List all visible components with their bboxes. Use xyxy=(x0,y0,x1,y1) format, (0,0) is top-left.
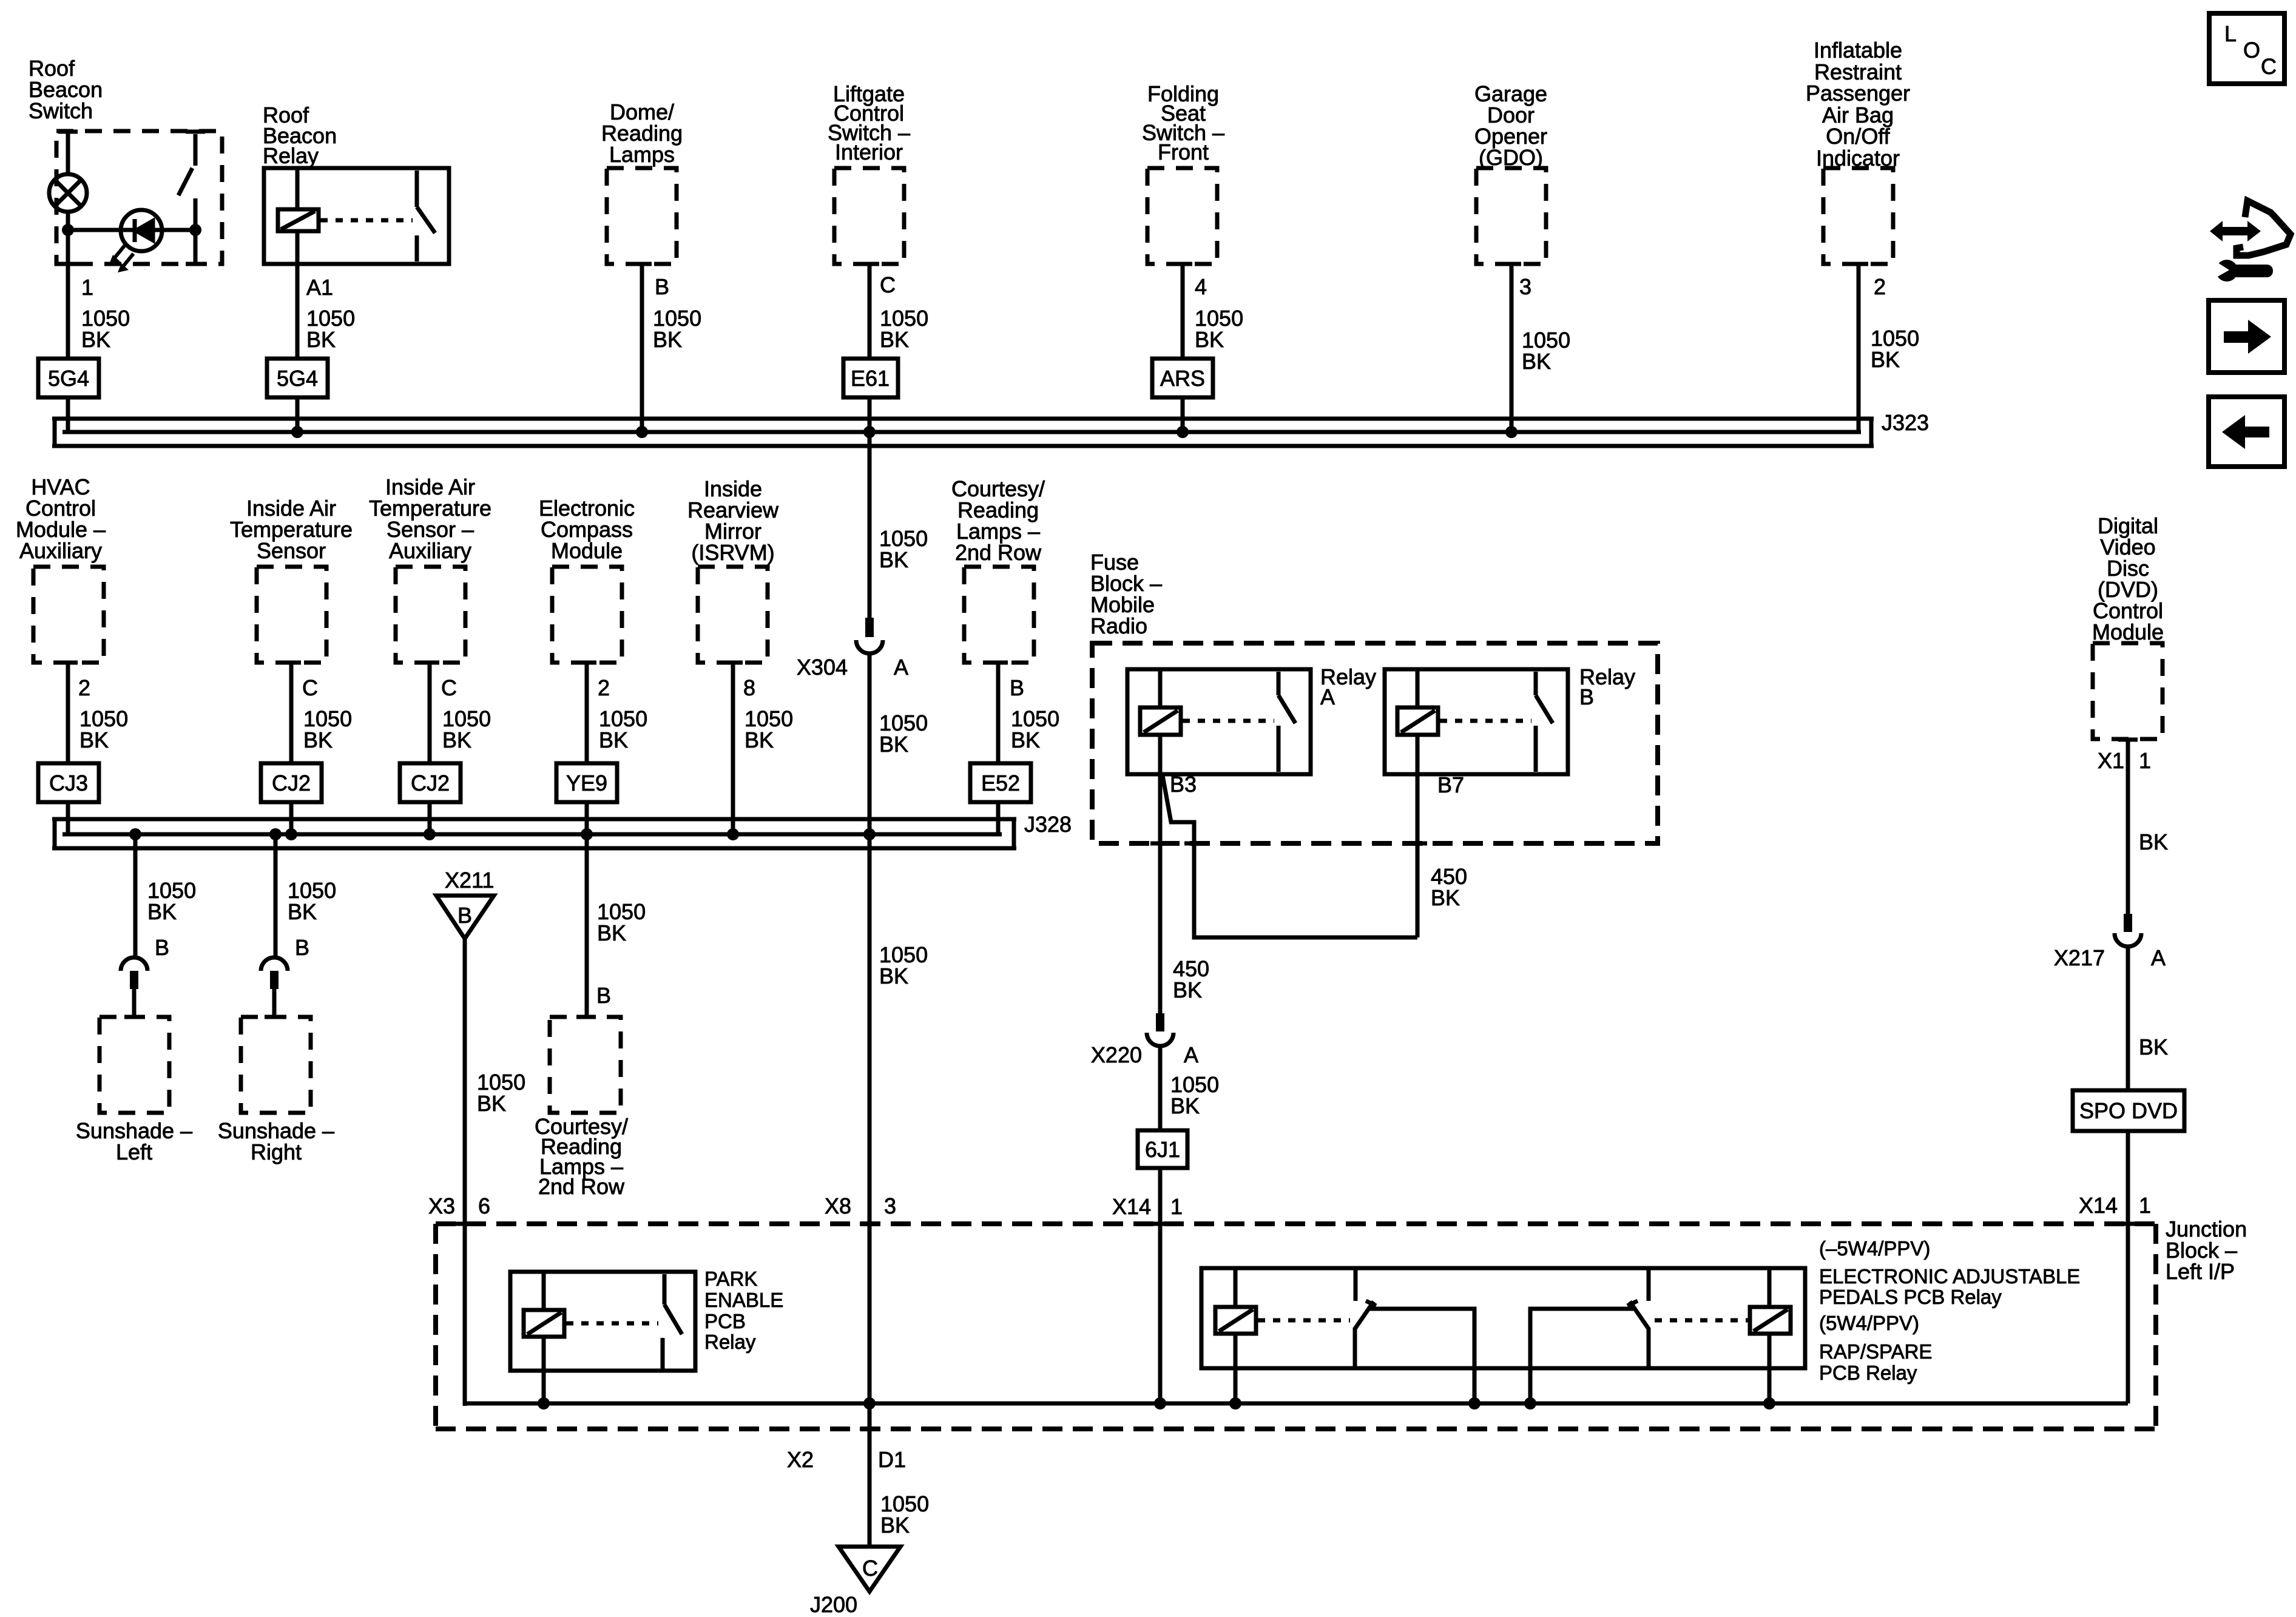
RAP relay switch lower contact to box bottom xyxy=(1647,1328,1651,1368)
connector (sunshade left) pin xyxy=(130,971,138,989)
svg-text:BK: BK xyxy=(1173,977,1202,1002)
svg-text:PEDALS PCB Relay: PEDALS PCB Relay xyxy=(1819,1286,2002,1308)
svg-text:BK: BK xyxy=(597,920,626,945)
connector X220 socket arc xyxy=(1147,1033,1173,1046)
component label: Roof Beacon Relay xyxy=(263,103,337,168)
svg-text:B3: B3 xyxy=(1170,772,1197,797)
wire label 1050 BK xyxy=(880,1491,929,1538)
sensor IATS Auxiliary dashed box xyxy=(396,567,465,663)
relay B label xyxy=(1579,664,1635,709)
svg-text:6: 6 xyxy=(478,1193,490,1218)
svg-text:BK: BK xyxy=(653,327,682,352)
svg-text:1: 1 xyxy=(2139,748,2151,773)
connector X304 socket arc xyxy=(856,640,883,653)
svg-text:BK: BK xyxy=(442,727,471,752)
wire ISRVM to bus J328 xyxy=(731,663,735,834)
svg-text:J200: J200 xyxy=(810,1592,857,1617)
node dot X14-1 wire on bus xyxy=(1154,1397,1166,1409)
wire X220 to 6J1 xyxy=(1158,1045,1163,1130)
relay switch blade xyxy=(417,207,435,233)
wire E61 through bus J323 down to X304 xyxy=(868,397,872,618)
splice box CJ2 xyxy=(261,763,322,802)
node dot liftgate on J328 xyxy=(863,828,876,840)
svg-text:3: 3 xyxy=(1519,274,1531,299)
svg-text:A: A xyxy=(2151,945,2166,970)
wire label 1050 BK xyxy=(306,306,355,352)
component label: PARK ENABLE PCB Relay xyxy=(704,1268,783,1353)
component label: Courtesy/Reading Lamps - 2nd Row (upper) xyxy=(951,476,1045,565)
wire label 1050 BK xyxy=(79,706,128,752)
connector (sunshade right) socket arc xyxy=(261,957,288,971)
RAP relay coil to bus xyxy=(1768,1334,1772,1403)
wire label 1050 BK xyxy=(880,306,928,352)
node junction dot at lamp/LED branch xyxy=(62,224,74,236)
module Dome/Reading Lamps dashed box xyxy=(607,168,677,264)
wire sunshade left drop xyxy=(133,834,138,957)
wire 5G4 to bus J323 xyxy=(295,397,300,432)
component label: Sunshade - Left xyxy=(76,1118,192,1164)
svg-text:B7: B7 xyxy=(1437,772,1464,797)
wire LED branch horizontal xyxy=(68,228,195,232)
svg-text:ARS: ARS xyxy=(1160,366,1205,391)
wire label 1050 BK xyxy=(288,878,336,924)
wire sunshade right drop xyxy=(274,834,278,957)
connector X217 pin (male) xyxy=(2124,914,2132,932)
svg-text:X1: X1 xyxy=(2098,748,2124,773)
svg-text:BK: BK xyxy=(303,727,333,752)
svg-text:5G4: 5G4 xyxy=(48,366,89,391)
svg-text:Auxiliary: Auxiliary xyxy=(389,538,471,563)
svg-text:A: A xyxy=(1184,1042,1198,1067)
svg-text:PCB: PCB xyxy=(704,1310,746,1332)
node dot sunshade left on J328 xyxy=(129,828,141,840)
relay B box xyxy=(1385,669,1568,774)
junction block dashed enclosure xyxy=(436,1224,2156,1429)
EAP relay dashed actuator line xyxy=(1258,1318,1350,1323)
connector (sunshade left) socket arc xyxy=(121,957,147,971)
svg-text:2: 2 xyxy=(1874,274,1886,299)
node dot EAP coil on bus xyxy=(1229,1397,1241,1409)
wire compass drop label 1050 BK xyxy=(597,899,646,945)
node dot RAP switch on bus xyxy=(1524,1397,1536,1409)
svg-text:5G4: 5G4 xyxy=(277,366,318,391)
wire Dome lamps to bus J323 xyxy=(640,264,644,432)
dash tabs at wire crossings of dashed edges xyxy=(58,262,78,266)
svg-text:8: 8 xyxy=(743,675,755,700)
relay A switch lower contact xyxy=(1277,726,1281,772)
svg-text:C: C xyxy=(2261,54,2277,79)
component label: Roof Beacon Switch xyxy=(29,56,103,123)
svg-text:B: B xyxy=(1010,675,1024,700)
svg-text:BK: BK xyxy=(1170,1093,1200,1118)
EAP relay coil xyxy=(1215,1307,1256,1334)
annotation labels EAP/RAP relays xyxy=(1819,1237,2080,1384)
wire compass to YE9 xyxy=(585,663,589,763)
svg-text:A1: A1 xyxy=(306,275,333,300)
svg-text:O: O xyxy=(2243,38,2260,62)
svg-text:Module: Module xyxy=(2092,619,2164,644)
wire label 1050 BK xyxy=(1871,326,1919,372)
module Sunshade Right dashed box xyxy=(241,1017,311,1113)
svg-text:BK: BK xyxy=(745,727,774,752)
node dot IATS-aux on J328 xyxy=(424,828,436,840)
relay A switch top contact xyxy=(1277,672,1281,695)
svg-text:2nd Row: 2nd Row xyxy=(955,540,1042,565)
node dot folding seat on J323 xyxy=(1177,426,1189,438)
wire IATS to CJ2 xyxy=(289,663,294,763)
svg-text:J328: J328 xyxy=(1024,812,1072,837)
svg-text:Relay: Relay xyxy=(704,1331,756,1353)
relay A coil to pin B3 xyxy=(1158,735,1163,774)
svg-text:BK: BK xyxy=(288,899,317,924)
relay B dashed actuator line xyxy=(1440,719,1531,723)
relay A box xyxy=(1127,669,1311,774)
component label: Digital Video Disc (DVD) Control Module xyxy=(2092,513,2164,644)
wire label 1050 BK xyxy=(442,706,491,752)
EAP relay switch blade xyxy=(1355,1301,1374,1329)
svg-text:Front: Front xyxy=(1158,140,1209,164)
EAP relay switch top contact xyxy=(1354,1268,1358,1301)
wire courtesy lamps to E52 xyxy=(996,663,1001,763)
svg-text:B: B xyxy=(1579,684,1594,709)
node dot liftgate on J323 xyxy=(863,426,876,438)
svg-text:PARK: PARK xyxy=(704,1268,757,1290)
wire X304 down through J328 xyxy=(868,653,872,1403)
svg-text:B: B xyxy=(458,903,472,928)
node dot ISRVM on J328 xyxy=(727,828,739,840)
component label: Inflatable Restraint Passenger Air Bag On/Off Indicator xyxy=(1806,38,1910,170)
splice box CJ3 xyxy=(38,763,99,802)
icon LOC box xyxy=(2209,13,2284,84)
svg-text:B: B xyxy=(155,935,169,960)
PARK relay switch blade xyxy=(664,1305,682,1334)
splice box SPO DVD xyxy=(2073,1090,2184,1131)
svg-text:X8: X8 xyxy=(825,1193,851,1218)
node junction dot LED to switch xyxy=(189,224,201,236)
svg-text:X2: X2 xyxy=(787,1447,814,1472)
connector X220 pin (male) xyxy=(1156,1013,1164,1031)
svg-text:(ISRVM): (ISRVM) xyxy=(691,540,774,565)
splice box 6J1 xyxy=(1138,1130,1187,1168)
relay actuating dashed line xyxy=(320,218,413,223)
switch Folding Seat Switch dashed box xyxy=(1147,168,1217,264)
svg-text:C: C xyxy=(862,1556,878,1581)
fuse block dashed enclosure xyxy=(1092,643,1658,843)
svg-text:BK: BK xyxy=(147,899,177,924)
wire 6J1 to junction block bus xyxy=(1158,1168,1163,1403)
node dot compass on J328 xyxy=(581,828,593,840)
svg-text:YE9: YE9 xyxy=(566,771,607,795)
switch Liftgate Control Switch dashed box xyxy=(834,168,904,264)
icon back arrow box xyxy=(2209,397,2284,467)
icon wrench xyxy=(2216,260,2238,282)
svg-text:BK: BK xyxy=(880,1513,910,1538)
wire HVAC to CJ3 xyxy=(66,663,70,763)
RAP relay coil xyxy=(1750,1307,1791,1334)
relay PARK ENABLE PCB box xyxy=(510,1272,695,1371)
EAP relay switch output line xyxy=(1369,1309,1474,1403)
wire to sunshade right box xyxy=(272,989,277,1019)
svg-text:ENABLE: ENABLE xyxy=(704,1289,783,1311)
wire label 1050 BK xyxy=(303,706,352,752)
relay switch lower contact xyxy=(415,235,419,262)
node dot dome lamps on J323 xyxy=(636,426,648,438)
svg-text:BK: BK xyxy=(306,327,336,352)
lamps Courtesy/Reading 2nd Row (lower) dashed box xyxy=(550,1017,621,1113)
module HVAC Control Module dashed box xyxy=(33,567,104,663)
relay B switch blade xyxy=(1536,695,1553,723)
svg-text:A: A xyxy=(894,655,908,680)
RAP relay switch top contact xyxy=(1647,1268,1651,1301)
svg-text:X14: X14 xyxy=(1112,1194,1151,1219)
component label: Sunshade - Right xyxy=(218,1118,334,1164)
wire E52 to bus J328 xyxy=(996,802,1001,834)
wire label 1050 BK xyxy=(1522,328,1570,374)
RAP relay dashed actuator line xyxy=(1655,1318,1748,1323)
wire B3 down to X220 xyxy=(1158,774,1163,1013)
wire GDO to bus J323 xyxy=(1510,264,1514,432)
wire label 1050 BK xyxy=(1195,306,1243,352)
module Electronic Compass dashed box xyxy=(552,567,622,663)
svg-text:C: C xyxy=(441,675,457,700)
svg-text:Relay: Relay xyxy=(263,143,319,168)
LED light arrows xyxy=(109,245,133,272)
connector (sunshade right) pin xyxy=(270,971,279,989)
wire air bag indicator to bus J323 xyxy=(1857,264,1861,432)
svg-text:RAP/SPARE: RAP/SPARE xyxy=(1819,1340,1932,1363)
wire label 1050 BK xyxy=(147,878,196,924)
svg-text:BK: BK xyxy=(1431,885,1460,910)
svg-text:BK: BK xyxy=(879,732,908,757)
svg-text:BK: BK xyxy=(79,727,109,752)
wire B3 jog to B7 tie line xyxy=(1163,775,1417,937)
wire ARS to bus J323 xyxy=(1181,397,1185,432)
wire stub from box top to lamp xyxy=(66,132,70,176)
component label: Dome/Reading Lamps xyxy=(601,100,683,167)
PARK relay coil to bus xyxy=(542,1337,546,1403)
svg-text:X304: X304 xyxy=(797,655,848,680)
bus J328 splice pack xyxy=(52,819,1016,848)
wire label 1050 BK above X304 xyxy=(879,526,928,572)
sensor Inside Air Temperature dashed box xyxy=(257,567,326,663)
component label: Inside Rearview Mirror (ISRVM) xyxy=(687,476,779,565)
icon forward arrow box xyxy=(2209,300,2284,373)
wire label 450 BK (B7) xyxy=(1431,864,1467,910)
bus J323 splice pack xyxy=(52,419,1874,446)
EAP relay coil to bus xyxy=(1234,1334,1238,1403)
svg-text:1: 1 xyxy=(81,275,93,300)
wire label 1050 BK xyxy=(1170,1072,1219,1118)
node dot PARK relay on bus xyxy=(538,1397,550,1409)
svg-text:X3: X3 xyxy=(428,1193,455,1218)
connector X211 triangle with pin B xyxy=(436,896,494,939)
svg-text:Module: Module xyxy=(551,538,623,563)
EAP relay switch lower contact to box bottom xyxy=(1353,1328,1357,1368)
switch blade (Roof Beacon Switch) xyxy=(194,134,198,166)
RAP relay coil stub top xyxy=(1768,1268,1772,1307)
wire junction block internal ground bus xyxy=(465,1402,2128,1406)
svg-text:CJ2: CJ2 xyxy=(411,771,450,795)
svg-text:B: B xyxy=(655,274,669,299)
svg-text:BK: BK xyxy=(879,547,908,572)
svg-text:1: 1 xyxy=(2139,1193,2151,1218)
svg-text:3: 3 xyxy=(884,1193,896,1218)
wire label 1050 BK xyxy=(599,706,647,752)
ground G200 triangle C xyxy=(839,1547,900,1592)
relay B coil to pin B7 xyxy=(1416,735,1420,774)
wire label 1050 BK below J328 xyxy=(879,942,928,988)
wire CJ2 aux to bus J328 xyxy=(428,802,432,834)
LED D1 (circle with diode) xyxy=(121,210,162,251)
node dot X2-D1 wire on bus xyxy=(863,1397,876,1409)
wire YE9 through bus J328 down to courtesy lamps xyxy=(585,802,589,1019)
indicator Air Bag On/Off dashed box xyxy=(1823,168,1893,264)
svg-text:Radio: Radio xyxy=(1090,613,1147,638)
wire X217 to SPO DVD xyxy=(2126,945,2130,1090)
svg-text:PCB Relay: PCB Relay xyxy=(1819,1362,1917,1384)
svg-text:BK: BK xyxy=(2139,829,2168,854)
wire folding seat switch to ARS xyxy=(1181,264,1185,359)
lamp L1 (indicator bulb, circle with X) xyxy=(49,174,87,212)
component label: Folding Seat Switch - Front xyxy=(1142,81,1224,164)
relay B coil xyxy=(1397,707,1438,735)
wire X2-D1 to ground xyxy=(868,1406,872,1547)
wire label 1050 BK xyxy=(653,306,701,352)
module Sunshade Left dashed box xyxy=(100,1017,169,1113)
svg-text:E61: E61 xyxy=(851,366,890,391)
switch S (Roof Beacon Switch) dashed box xyxy=(56,131,222,264)
svg-text:C: C xyxy=(880,272,896,297)
PARK relay switch lower contact xyxy=(661,1338,665,1371)
relay EAP/RAP PCB box xyxy=(1201,1268,1805,1368)
node dot GDO on J323 xyxy=(1505,426,1518,438)
wire coil to pin A1 xyxy=(295,231,300,359)
wire label 1050 BK xyxy=(1011,706,1059,752)
svg-text:C: C xyxy=(302,675,318,700)
svg-text:6J1: 6J1 xyxy=(1145,1137,1180,1162)
splice box E61 xyxy=(843,359,898,397)
RAP relay switch blade tick xyxy=(1627,1301,1638,1306)
splice box ARS xyxy=(1152,359,1213,397)
mirror ISRVM dashed box xyxy=(698,567,768,663)
splice box YE9 xyxy=(556,763,617,802)
wire 5G4 to bus J323 xyxy=(66,397,70,432)
svg-text:Sensor: Sensor xyxy=(257,538,326,563)
svg-text:2: 2 xyxy=(78,675,90,700)
relay A label xyxy=(1320,664,1376,709)
svg-text:On/Off: On/Off xyxy=(1826,124,1890,149)
svg-text:X220: X220 xyxy=(1091,1042,1142,1067)
PARK relay dashed actuator line xyxy=(566,1322,658,1326)
wire CJ2 to bus J328 xyxy=(289,802,294,834)
relay B coil stub top xyxy=(1416,669,1420,707)
svg-text:Left: Left xyxy=(116,1139,152,1164)
svg-text:SPO DVD: SPO DVD xyxy=(2079,1098,2178,1123)
svg-text:A: A xyxy=(1320,684,1335,709)
component label: Liftgate Control Switch - Interior xyxy=(828,81,910,164)
wire label 1050 BK xyxy=(81,306,130,352)
svg-text:BK: BK xyxy=(1195,327,1224,352)
module GDO dashed box xyxy=(1476,168,1546,264)
component label: Electronic Compass Module xyxy=(539,496,635,563)
wire CJ3 to bus J328 xyxy=(66,802,70,834)
relay K1 Roof Beacon Relay box xyxy=(264,168,449,264)
svg-text:BK: BK xyxy=(1522,349,1551,374)
svg-text:BK: BK xyxy=(879,964,908,988)
svg-text:(–5W4/PPV): (–5W4/PPV) xyxy=(1819,1237,1930,1260)
svg-text:Left I/P: Left I/P xyxy=(2166,1259,2235,1284)
component label: Courtesy/Reading Lamps - 2nd Row (lower) xyxy=(535,1114,628,1199)
svg-text:BK: BK xyxy=(81,327,110,352)
component label: HVAC Control Module - Auxiliary xyxy=(16,474,106,563)
svg-text:E52: E52 xyxy=(981,771,1020,795)
connector X304 pin (male blade) xyxy=(865,618,874,637)
svg-text:(5W4/PPV): (5W4/PPV) xyxy=(1819,1312,1919,1334)
component label: Inside Air Temperature Sensor - Auxiliary xyxy=(369,474,491,563)
svg-text:CJ2: CJ2 xyxy=(272,771,311,795)
wire label 1050 BK xyxy=(745,706,793,752)
svg-text:CJ3: CJ3 xyxy=(49,771,88,795)
PARK relay coil stub top xyxy=(542,1272,546,1310)
RAP relay switch blade xyxy=(1630,1301,1649,1329)
component label: Junction Block - Left I/P xyxy=(2166,1217,2247,1284)
node dot roof beacon relay on J323 xyxy=(291,426,303,438)
wire lamp to pin 1 xyxy=(66,212,70,359)
svg-text:Passenger: Passenger xyxy=(1806,81,1910,106)
svg-text:B: B xyxy=(295,935,309,960)
splice box E52 xyxy=(970,763,1031,802)
icon double arrow (harness) xyxy=(2210,221,2261,241)
icon harness outline xyxy=(2237,201,2291,255)
svg-text:J323: J323 xyxy=(1882,410,1929,435)
svg-text:Right: Right xyxy=(251,1139,302,1164)
switch lower contact xyxy=(194,198,198,264)
relay A dashed actuator line xyxy=(1183,719,1274,723)
component label: Fuse Block - Mobile Radio xyxy=(1090,550,1162,638)
svg-text:Switch: Switch xyxy=(29,98,93,123)
relay B switch top contact xyxy=(1534,672,1538,695)
svg-text:BK: BK xyxy=(880,327,909,352)
svg-text:4: 4 xyxy=(1195,274,1207,299)
relay coil wire stub top xyxy=(295,168,300,209)
relay A coil stub top xyxy=(1158,669,1163,707)
wire SPO DVD to junction block bus xyxy=(2126,1131,2130,1403)
svg-text:BK: BK xyxy=(599,727,628,752)
node dot sunshade right on J328 xyxy=(269,828,282,840)
lamps Courtesy/Reading 2nd Row dashed box xyxy=(964,567,1034,663)
wire DVD module to X217 xyxy=(2126,739,2130,914)
svg-text:X217: X217 xyxy=(2054,945,2105,970)
wire B7 down to tie line xyxy=(1416,774,1420,937)
svg-text:X14: X14 xyxy=(2079,1193,2118,1218)
RAP relay switch output line xyxy=(1530,1309,1634,1403)
wire label 1050 BK xyxy=(477,1070,525,1116)
svg-text:2nd Row: 2nd Row xyxy=(538,1174,625,1199)
svg-text:Lamps: Lamps xyxy=(609,142,675,167)
component label: Inside Air Temperature Sensor xyxy=(230,496,353,563)
wire IATS-aux to CJ2 xyxy=(428,663,432,763)
node dot EAP switch on bus xyxy=(1468,1397,1481,1409)
component label: Garage Door Opener (GDO) xyxy=(1474,81,1547,170)
EAP relay coil stub top xyxy=(1234,1268,1238,1307)
relay B switch lower contact xyxy=(1534,726,1538,772)
node dot IATS on J328 xyxy=(285,828,297,840)
connector X217 socket arc xyxy=(2115,933,2141,947)
relay coil (rect with diagonal) xyxy=(278,209,319,231)
node dot RAP coil on bus xyxy=(1763,1397,1775,1409)
svg-text:Inflatable: Inflatable xyxy=(1814,38,1902,62)
svg-text:1: 1 xyxy=(1170,1194,1183,1219)
